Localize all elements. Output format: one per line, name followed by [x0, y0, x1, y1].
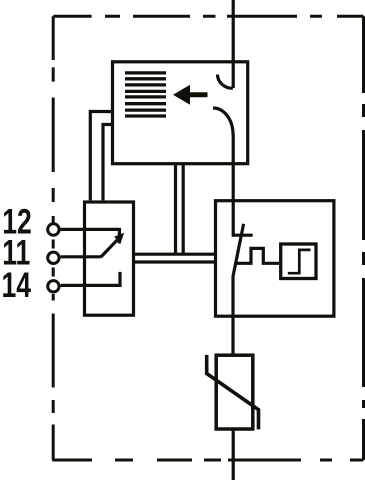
svg-text:14: 14 [2, 265, 32, 305]
